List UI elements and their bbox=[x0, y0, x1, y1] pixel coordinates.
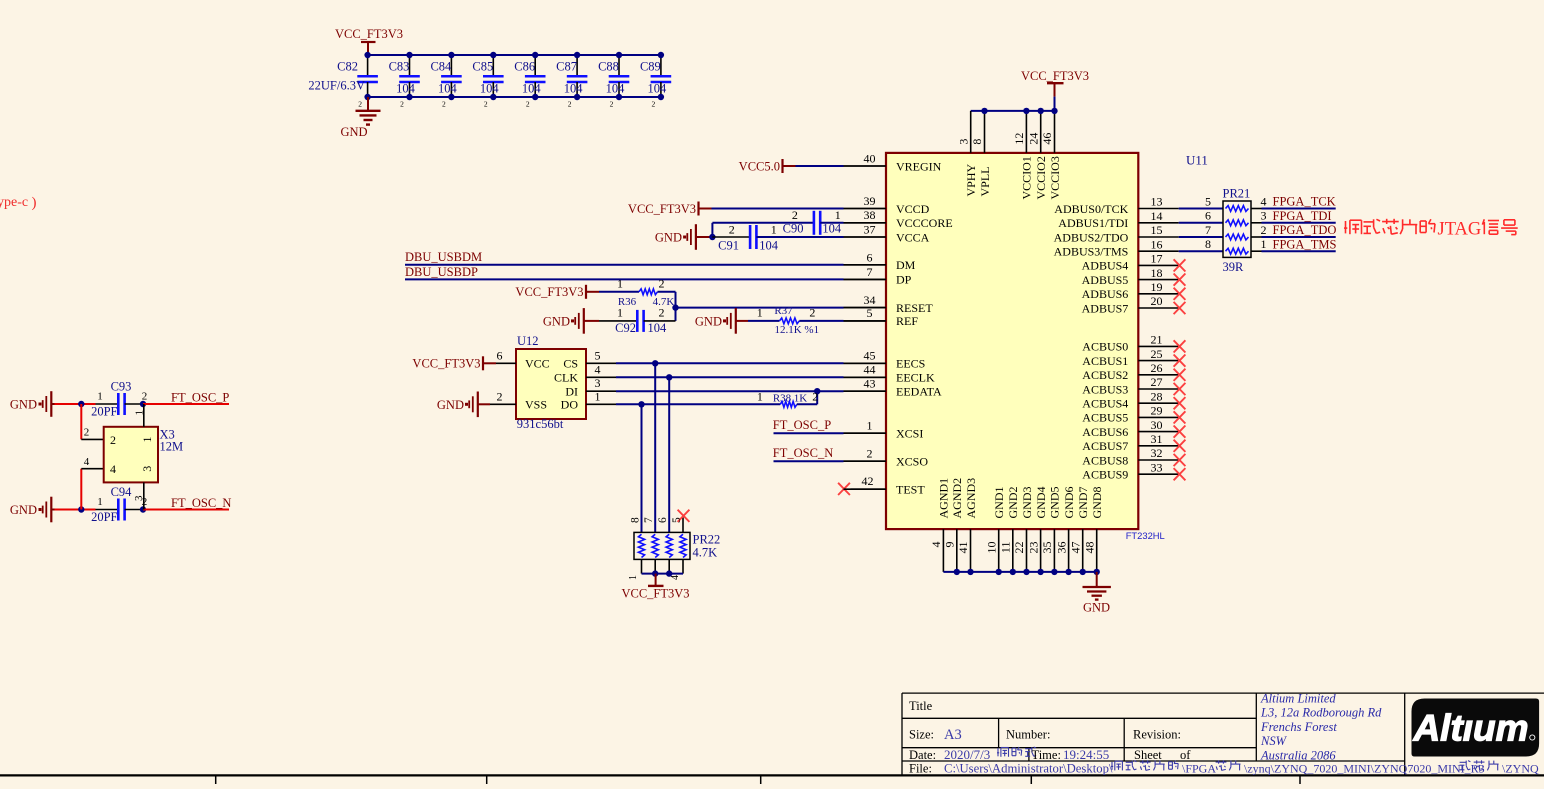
svg-text:5: 5 bbox=[671, 517, 683, 523]
svg-text:DM: DM bbox=[896, 258, 916, 272]
svg-text:VCCIO3: VCCIO3 bbox=[1048, 156, 1062, 199]
svg-text:GND: GND bbox=[543, 314, 570, 328]
svg-text:of: of bbox=[1180, 748, 1191, 762]
svg-text:2: 2 bbox=[400, 100, 404, 109]
svg-text:FPGA_TCK: FPGA_TCK bbox=[1273, 195, 1336, 209]
svg-text:14: 14 bbox=[1151, 209, 1163, 223]
svg-text:FPGA_TMS: FPGA_TMS bbox=[1273, 237, 1337, 251]
svg-text:CS: CS bbox=[563, 357, 578, 371]
svg-text:DBU_USBDM: DBU_USBDM bbox=[405, 250, 482, 264]
svg-text:JTAG: JTAG bbox=[1438, 220, 1482, 240]
svg-text:39: 39 bbox=[864, 194, 876, 208]
svg-text:7: 7 bbox=[1205, 223, 1211, 237]
svg-text:ADBUS7: ADBUS7 bbox=[1082, 301, 1129, 315]
svg-text:Date:: Date: bbox=[909, 748, 936, 762]
svg-text:21: 21 bbox=[1151, 333, 1163, 347]
svg-text:Frenchs Forest: Frenchs Forest bbox=[1260, 720, 1337, 734]
svg-text:104: 104 bbox=[606, 82, 626, 96]
svg-text:2: 2 bbox=[526, 100, 530, 109]
svg-text:NSW: NSW bbox=[1260, 734, 1288, 748]
svg-text:C90: C90 bbox=[783, 221, 804, 235]
svg-text:ACBUS9: ACBUS9 bbox=[1082, 468, 1128, 482]
svg-text:7: 7 bbox=[643, 517, 655, 523]
svg-text:Revision:: Revision: bbox=[1133, 727, 1181, 741]
svg-text:C83: C83 bbox=[389, 60, 410, 74]
svg-text:4: 4 bbox=[670, 575, 681, 580]
svg-text:ADBUS5: ADBUS5 bbox=[1082, 273, 1129, 287]
svg-text:ADBUS3/TMS: ADBUS3/TMS bbox=[1054, 245, 1129, 259]
svg-text:18: 18 bbox=[1151, 266, 1163, 280]
svg-text:10: 10 bbox=[984, 542, 998, 554]
svg-text:11: 11 bbox=[999, 542, 1013, 554]
svg-text:U11: U11 bbox=[1186, 153, 1208, 168]
svg-text:1: 1 bbox=[97, 496, 103, 508]
svg-text:47: 47 bbox=[1068, 542, 1082, 554]
svg-text:2: 2 bbox=[484, 100, 488, 109]
svg-text:C85: C85 bbox=[472, 60, 493, 74]
svg-text:1: 1 bbox=[97, 391, 103, 403]
svg-text:U12: U12 bbox=[517, 334, 539, 348]
svg-text:17: 17 bbox=[1151, 252, 1163, 266]
svg-text:24: 24 bbox=[1026, 133, 1040, 145]
svg-text:Altium Limited: Altium Limited bbox=[1260, 692, 1336, 706]
svg-text:VCC_FT3V3: VCC_FT3V3 bbox=[628, 202, 696, 216]
svg-text:2: 2 bbox=[84, 427, 90, 439]
svg-text:6: 6 bbox=[497, 349, 503, 363]
svg-text:GND5: GND5 bbox=[1048, 487, 1062, 519]
svg-text:GND6: GND6 bbox=[1062, 487, 1076, 519]
svg-text:DO: DO bbox=[561, 398, 579, 412]
svg-text:2: 2 bbox=[1261, 223, 1267, 237]
svg-text:): ) bbox=[32, 195, 37, 211]
svg-text:35: 35 bbox=[1040, 542, 1054, 554]
svg-text:3: 3 bbox=[1261, 209, 1267, 223]
svg-text:2: 2 bbox=[792, 208, 798, 222]
svg-text:1: 1 bbox=[595, 389, 601, 403]
svg-text:VCCIO2: VCCIO2 bbox=[1034, 156, 1048, 199]
svg-text:XCSI: XCSI bbox=[896, 427, 923, 441]
svg-text:C88: C88 bbox=[598, 60, 619, 74]
svg-text:29: 29 bbox=[1151, 404, 1163, 418]
svg-text:\zynq\ZYNQ_7020_MINI\ZYNQ7020_: \zynq\ZYNQ_7020_MINI\ZYNQ7020_MINI_R3 bbox=[1244, 761, 1485, 775]
svg-text:\FPGA: \FPGA bbox=[1182, 761, 1216, 775]
svg-text:2: 2 bbox=[110, 433, 116, 447]
svg-text:VCC_FT3V3: VCC_FT3V3 bbox=[515, 285, 583, 299]
svg-text:FT_OSC_P: FT_OSC_P bbox=[171, 390, 229, 404]
svg-text:16: 16 bbox=[1151, 237, 1163, 251]
svg-text:VCC5.0: VCC5.0 bbox=[739, 159, 780, 173]
svg-text:GND1: GND1 bbox=[992, 487, 1006, 519]
svg-text:ADBUS1/TDI: ADBUS1/TDI bbox=[1058, 216, 1128, 230]
svg-text:30: 30 bbox=[1151, 418, 1163, 432]
svg-text:ype-c: ype-c bbox=[0, 195, 28, 210]
svg-text:GND: GND bbox=[1083, 601, 1110, 615]
svg-text:\ZYNQ: \ZYNQ bbox=[1502, 761, 1539, 775]
svg-text:2020/7/3: 2020/7/3 bbox=[944, 747, 990, 762]
svg-text:104: 104 bbox=[480, 82, 500, 96]
svg-text:VCC_FT3V3: VCC_FT3V3 bbox=[335, 27, 403, 41]
svg-text:43: 43 bbox=[864, 377, 876, 391]
svg-text:104: 104 bbox=[759, 238, 779, 252]
svg-text:2: 2 bbox=[568, 100, 572, 109]
svg-text:2: 2 bbox=[652, 100, 656, 109]
svg-text:2: 2 bbox=[812, 390, 818, 404]
svg-text:C:\Users\Administrator\Desktop: C:\Users\Administrator\Desktop\ bbox=[944, 761, 1113, 775]
svg-text:1: 1 bbox=[134, 410, 146, 416]
svg-text:VCCIO1: VCCIO1 bbox=[1020, 156, 1034, 199]
svg-text:2: 2 bbox=[610, 100, 614, 109]
svg-text:1: 1 bbox=[628, 575, 639, 580]
svg-text:Title: Title bbox=[909, 699, 933, 713]
svg-text:4.7K: 4.7K bbox=[693, 546, 718, 560]
svg-text:5: 5 bbox=[595, 348, 601, 362]
svg-text:EECS: EECS bbox=[896, 357, 925, 371]
svg-text:23: 23 bbox=[1026, 542, 1040, 554]
svg-text:DBU_USBDP: DBU_USBDP bbox=[405, 265, 478, 279]
svg-text:C92: C92 bbox=[615, 321, 636, 335]
svg-text:1: 1 bbox=[757, 390, 763, 404]
svg-text:32: 32 bbox=[1151, 446, 1163, 460]
svg-text:C89: C89 bbox=[640, 60, 661, 74]
svg-text:GND7: GND7 bbox=[1076, 487, 1090, 519]
svg-text:AGND1: AGND1 bbox=[937, 478, 951, 519]
svg-text:2: 2 bbox=[142, 391, 148, 403]
svg-text:C84: C84 bbox=[430, 60, 452, 74]
svg-text:Time:: Time: bbox=[1032, 748, 1061, 762]
svg-text:ADBUS0/TCK: ADBUS0/TCK bbox=[1054, 202, 1128, 216]
svg-text:46: 46 bbox=[1040, 133, 1054, 145]
svg-text:3: 3 bbox=[133, 495, 145, 501]
svg-text:9: 9 bbox=[943, 542, 957, 548]
svg-text:FPGA_TDI: FPGA_TDI bbox=[1273, 209, 1332, 223]
svg-text:Number:: Number: bbox=[1006, 727, 1050, 741]
svg-text:36: 36 bbox=[1054, 542, 1068, 554]
svg-text:ACBUS3: ACBUS3 bbox=[1082, 382, 1128, 396]
svg-text:12M: 12M bbox=[160, 440, 184, 454]
svg-text:48: 48 bbox=[1082, 542, 1096, 554]
svg-text:44: 44 bbox=[864, 363, 876, 377]
svg-text:5: 5 bbox=[1205, 194, 1211, 208]
svg-text:104: 104 bbox=[564, 82, 584, 96]
svg-text:1: 1 bbox=[771, 222, 777, 236]
svg-text:104: 104 bbox=[648, 321, 668, 335]
svg-text:GND4: GND4 bbox=[1034, 487, 1048, 519]
svg-text:104: 104 bbox=[648, 82, 668, 96]
svg-text:VPLL: VPLL bbox=[978, 167, 992, 197]
svg-text:1: 1 bbox=[1261, 237, 1267, 251]
svg-text:1: 1 bbox=[867, 418, 873, 432]
svg-text:VCCCORE: VCCCORE bbox=[896, 216, 953, 230]
svg-text:Altıum: Altıum bbox=[1412, 708, 1528, 749]
svg-text:2: 2 bbox=[659, 306, 665, 320]
svg-text:GND2: GND2 bbox=[1006, 487, 1020, 519]
svg-text:40: 40 bbox=[864, 151, 876, 165]
svg-text:CLK: CLK bbox=[554, 371, 578, 385]
svg-text:FPGA_TDO: FPGA_TDO bbox=[1273, 223, 1337, 237]
svg-text:FT232HL: FT232HL bbox=[1126, 530, 1165, 541]
svg-text:VCCD: VCCD bbox=[896, 202, 930, 216]
svg-text:C82: C82 bbox=[337, 60, 358, 74]
svg-text:3: 3 bbox=[595, 376, 601, 390]
svg-text:VREGIN: VREGIN bbox=[896, 159, 942, 173]
svg-text:104: 104 bbox=[396, 82, 416, 96]
svg-text:Sheet: Sheet bbox=[1134, 748, 1162, 762]
svg-text:Size:: Size: bbox=[909, 727, 934, 741]
svg-text:26: 26 bbox=[1151, 361, 1163, 375]
svg-text:3: 3 bbox=[956, 139, 970, 145]
svg-text:C93: C93 bbox=[111, 380, 132, 394]
svg-text:FT_OSC_N: FT_OSC_N bbox=[171, 496, 231, 510]
svg-text:38: 38 bbox=[864, 208, 876, 222]
svg-text:2: 2 bbox=[729, 222, 735, 236]
svg-text:TEST: TEST bbox=[896, 483, 925, 497]
svg-text:DP: DP bbox=[896, 273, 912, 287]
svg-text:GND: GND bbox=[340, 125, 367, 139]
svg-text:ACBUS7: ACBUS7 bbox=[1082, 439, 1128, 453]
svg-text:VCC_FT3V3: VCC_FT3V3 bbox=[1021, 69, 1089, 83]
svg-text:ADBUS4: ADBUS4 bbox=[1082, 259, 1129, 273]
svg-text:6: 6 bbox=[657, 517, 669, 523]
svg-text:Australia 2086: Australia 2086 bbox=[1260, 748, 1336, 762]
svg-text:2: 2 bbox=[809, 306, 815, 320]
svg-text:ADBUS2/TDO: ADBUS2/TDO bbox=[1054, 230, 1129, 244]
svg-text:34: 34 bbox=[864, 293, 876, 307]
svg-text:7: 7 bbox=[867, 265, 873, 279]
svg-text:AGND2: AGND2 bbox=[950, 478, 964, 519]
svg-text:42: 42 bbox=[862, 474, 874, 488]
svg-text:VSS: VSS bbox=[525, 398, 547, 412]
svg-text:VCC: VCC bbox=[525, 357, 550, 371]
svg-text:ACBUS5: ACBUS5 bbox=[1082, 411, 1128, 425]
svg-text:20PF: 20PF bbox=[91, 405, 117, 419]
svg-text:VCCA: VCCA bbox=[896, 230, 930, 244]
svg-text:PR21: PR21 bbox=[1223, 187, 1251, 201]
svg-text:EECLK: EECLK bbox=[896, 371, 935, 385]
svg-text:ACBUS2: ACBUS2 bbox=[1082, 368, 1128, 382]
svg-text:ACBUS0: ACBUS0 bbox=[1082, 340, 1128, 354]
svg-text:19:24:55: 19:24:55 bbox=[1063, 747, 1109, 762]
svg-text:4: 4 bbox=[84, 456, 90, 468]
svg-text:GND: GND bbox=[10, 398, 37, 412]
svg-text:VCC_FT3V3: VCC_FT3V3 bbox=[621, 587, 689, 601]
svg-text:4: 4 bbox=[110, 462, 116, 476]
svg-text:RESET: RESET bbox=[896, 301, 933, 315]
svg-text:27: 27 bbox=[1151, 375, 1163, 389]
svg-text:22UF/6.3V: 22UF/6.3V bbox=[308, 79, 365, 93]
svg-text:C86: C86 bbox=[514, 60, 535, 74]
svg-text:ACBUS6: ACBUS6 bbox=[1082, 425, 1128, 439]
svg-text:2: 2 bbox=[497, 390, 503, 404]
svg-text:104: 104 bbox=[438, 82, 458, 96]
svg-text:8: 8 bbox=[629, 517, 641, 523]
svg-text:1: 1 bbox=[757, 306, 763, 320]
svg-text:VPHY: VPHY bbox=[964, 163, 978, 196]
svg-text:104: 104 bbox=[522, 82, 542, 96]
svg-text:28: 28 bbox=[1151, 389, 1163, 403]
svg-text:4: 4 bbox=[929, 542, 943, 548]
svg-text:12.1K %1: 12.1K %1 bbox=[774, 324, 819, 336]
svg-text:2: 2 bbox=[358, 100, 362, 109]
svg-text:15: 15 bbox=[1151, 223, 1163, 237]
svg-text:20: 20 bbox=[1151, 294, 1163, 308]
svg-text:C94: C94 bbox=[111, 485, 133, 499]
svg-text:31: 31 bbox=[1151, 432, 1163, 446]
svg-text:GND: GND bbox=[10, 503, 37, 517]
svg-text:12: 12 bbox=[1012, 133, 1026, 145]
svg-text:ACBUS8: ACBUS8 bbox=[1082, 453, 1128, 467]
svg-text:1: 1 bbox=[140, 437, 154, 443]
svg-text:GND8: GND8 bbox=[1090, 487, 1104, 519]
svg-text:REF: REF bbox=[896, 314, 918, 328]
svg-text:GND: GND bbox=[437, 398, 464, 412]
svg-text:25: 25 bbox=[1151, 347, 1163, 361]
svg-text:1: 1 bbox=[617, 306, 623, 320]
svg-text:1: 1 bbox=[617, 277, 623, 291]
svg-text:37: 37 bbox=[864, 222, 876, 236]
svg-text:8: 8 bbox=[970, 139, 984, 145]
svg-text:3: 3 bbox=[140, 466, 154, 472]
svg-text:2: 2 bbox=[442, 100, 446, 109]
svg-text:104: 104 bbox=[822, 221, 842, 235]
svg-text:1: 1 bbox=[835, 208, 841, 222]
svg-text:33: 33 bbox=[1151, 460, 1163, 474]
svg-text:ADBUS6: ADBUS6 bbox=[1082, 287, 1129, 301]
svg-text:FT_OSC_P: FT_OSC_P bbox=[773, 418, 831, 432]
svg-text:L3, 12a Rodborough Rd: L3, 12a Rodborough Rd bbox=[1260, 706, 1382, 720]
svg-text:FT_OSC_N: FT_OSC_N bbox=[773, 446, 833, 460]
svg-text:6: 6 bbox=[1205, 209, 1211, 223]
svg-text:VCC_FT3V3: VCC_FT3V3 bbox=[412, 357, 480, 371]
svg-text:R37: R37 bbox=[774, 305, 793, 317]
svg-text:4: 4 bbox=[595, 362, 601, 376]
svg-text:13: 13 bbox=[1151, 195, 1163, 209]
svg-text:8: 8 bbox=[1205, 237, 1211, 251]
svg-text:20PF: 20PF bbox=[91, 510, 117, 524]
svg-text:GND3: GND3 bbox=[1020, 487, 1034, 519]
svg-text:File:: File: bbox=[909, 761, 932, 775]
svg-text:A3: A3 bbox=[944, 727, 962, 743]
svg-text:ACBUS1: ACBUS1 bbox=[1082, 354, 1128, 368]
svg-text:19: 19 bbox=[1151, 280, 1163, 294]
svg-text:PR22: PR22 bbox=[693, 533, 721, 547]
svg-text:C91: C91 bbox=[718, 238, 739, 252]
svg-text:GND: GND bbox=[695, 314, 722, 328]
svg-text:DI: DI bbox=[565, 385, 578, 399]
svg-text:6: 6 bbox=[867, 250, 873, 264]
svg-text:XCSO: XCSO bbox=[896, 455, 928, 469]
svg-text:4: 4 bbox=[1261, 194, 1267, 208]
svg-text:1K: 1K bbox=[794, 393, 808, 405]
svg-text:EEDATA: EEDATA bbox=[896, 385, 942, 399]
svg-text:931c56bt: 931c56bt bbox=[517, 417, 564, 431]
svg-text:ACBUS4: ACBUS4 bbox=[1082, 397, 1128, 411]
svg-text:AGND3: AGND3 bbox=[964, 478, 978, 519]
svg-text:2: 2 bbox=[659, 277, 665, 291]
svg-text:C87: C87 bbox=[556, 60, 577, 74]
svg-text:41: 41 bbox=[956, 542, 970, 554]
svg-text:22: 22 bbox=[1012, 541, 1026, 553]
svg-text:2: 2 bbox=[867, 446, 873, 460]
svg-text:45: 45 bbox=[864, 349, 876, 363]
svg-text:39R: 39R bbox=[1223, 260, 1245, 274]
svg-text:GND: GND bbox=[655, 231, 682, 245]
